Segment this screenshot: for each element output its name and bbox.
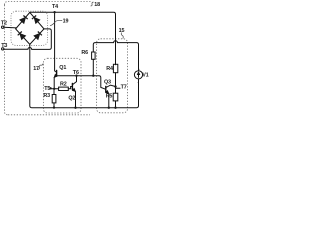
svg-text:R5: R5 bbox=[106, 94, 113, 100]
svg-text:R3: R3 bbox=[43, 93, 50, 99]
svg-text:T7: T7 bbox=[121, 85, 127, 91]
svg-text:Q1: Q1 bbox=[59, 65, 66, 71]
svg-text:19: 19 bbox=[63, 18, 69, 24]
svg-text:R4: R4 bbox=[106, 66, 113, 72]
svg-text:T2: T2 bbox=[1, 20, 7, 26]
svg-text:15: 15 bbox=[119, 28, 125, 34]
svg-text:T3: T3 bbox=[1, 43, 7, 49]
svg-text:17: 17 bbox=[33, 66, 39, 72]
svg-text:T6: T6 bbox=[73, 70, 79, 76]
svg-text:Q3: Q3 bbox=[104, 80, 111, 86]
svg-text:R2: R2 bbox=[60, 82, 67, 88]
svg-text:R6: R6 bbox=[81, 50, 88, 56]
svg-text:18: 18 bbox=[94, 2, 100, 8]
svg-text:T4: T4 bbox=[52, 4, 58, 10]
svg-text:Q2: Q2 bbox=[68, 95, 75, 101]
svg-text:T5: T5 bbox=[44, 86, 50, 92]
svg-text:V1: V1 bbox=[142, 73, 148, 79]
